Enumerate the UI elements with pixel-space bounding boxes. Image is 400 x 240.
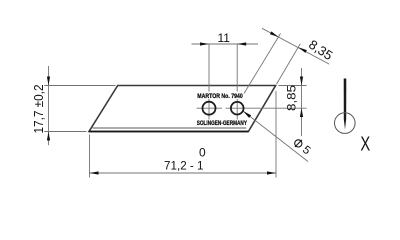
svg-text:MARTOR No. 7940: MARTOR No. 7940 [197,93,243,100]
dimension line 8.35 [262,28,329,64]
hole centerline horizontal left [197,107,223,109]
text diameter 5 [295,140,313,157]
extension line 71.2 left [89,135,91,178]
leader diameter 5 [243,111,308,162]
svg-text:SOLINGEN-GERMANY: SOLINGEN-GERMANY [197,120,248,127]
arrow leader diameter5 [243,111,251,118]
arrow 71.2 left [90,171,99,174]
hole centerline horizontal right extended (8.85 bottom extension) [226,107,307,109]
extension line 8.35 through hole center [244,34,281,94]
svg-text:8,85: 8,85 [285,85,299,111]
arrow 8.35 lower [298,47,307,53]
cutting edge main line emphasized [89,131,248,133]
dimension line 71.2 [90,172,277,174]
extension line 17.7 top [44,85,115,87]
arrow 11 right [237,42,246,45]
dimension line 17.7 [48,66,50,145]
knife position circle [335,113,356,134]
arrow 11 left [200,42,209,45]
hole right [231,102,244,115]
svg-text:17,7 ±0,2: 17,7 ±0,2 [31,85,46,134]
dimension line 8.85 [301,68,303,136]
extension line 71.2 right [275,91,277,178]
arrow 8.85 bottom [300,108,303,117]
arrow 8.35 upper [270,31,279,37]
hole centerline vertical right [236,44,238,120]
blade outline [89,86,276,132]
arrow 71.2 right [267,171,276,174]
svg-text:0: 0 [199,145,206,159]
extension line 17.7 bottom [44,131,86,133]
svg-text:71,2 - 1: 71,2 - 1 [164,159,204,173]
hole centerline vertical left [208,44,210,120]
cutting edge bevel line [93,127,247,129]
svg-text:11: 11 [217,31,230,45]
svg-text:5: 5 [300,144,312,157]
knife position pin [344,79,347,130]
hole left [203,102,216,115]
extension line 8.35 edge prolongation [277,44,301,84]
arrow 17.7 top [47,77,50,86]
dimension line 11 [192,43,259,45]
extension line 8.85 top [279,85,307,87]
svg-text:X: X [360,132,370,155]
arrow 8.85 top [300,77,303,86]
arrow 17.7 bottom [47,132,50,141]
